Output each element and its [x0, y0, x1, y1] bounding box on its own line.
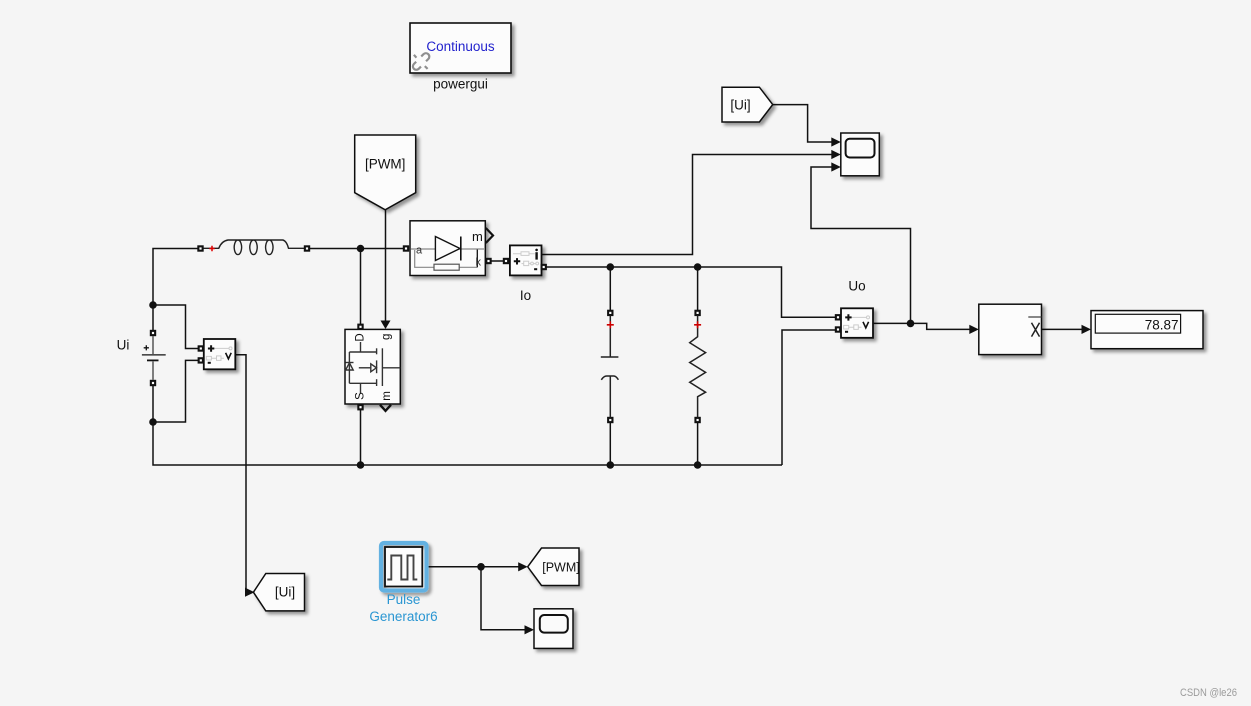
- svg-text:a: a: [416, 245, 423, 257]
- svg-text:[PWM]: [PWM]: [365, 156, 406, 171]
- svg-text:k: k: [476, 257, 482, 269]
- svg-text:[Ui]: [Ui]: [275, 585, 295, 600]
- svg-text:Continuous: Continuous: [426, 39, 495, 54]
- svg-text:powergui: powergui: [433, 77, 488, 92]
- svg-text:Io: Io: [520, 288, 531, 303]
- svg-text:g: g: [381, 334, 393, 340]
- svg-text:[Ui]: [Ui]: [730, 97, 750, 112]
- svg-text:m: m: [472, 229, 483, 244]
- svg-text:[PWM]: [PWM]: [542, 560, 580, 574]
- svg-text:CSDN @le26: CSDN @le26: [1180, 687, 1237, 699]
- svg-text:Ui: Ui: [117, 338, 130, 353]
- svg-text:Generator6: Generator6: [369, 609, 437, 624]
- svg-text:78.87: 78.87: [1145, 318, 1179, 333]
- svg-text:S: S: [355, 392, 367, 400]
- svg-text:Pulse: Pulse: [387, 592, 421, 607]
- svg-text:m: m: [381, 391, 393, 401]
- svg-text:Uo: Uo: [848, 279, 865, 294]
- svg-text:D: D: [355, 333, 367, 341]
